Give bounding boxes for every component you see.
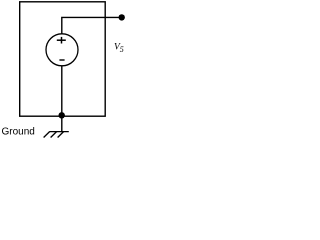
label Ground: [2, 127, 35, 138]
minus polarity mark: [59, 59, 64, 61]
wire loop rectangle: [20, 2, 106, 116]
voltage source V5 circle: [46, 34, 78, 66]
node V5 terminal dot: [119, 14, 125, 20]
wire from source bottom to ground: [61, 66, 63, 132]
svg-text:Ground: Ground: [2, 127, 35, 138]
svg-text:5: 5: [120, 45, 124, 54]
wire from source top to node V5: [62, 17, 122, 34]
junction dot on bottom wire: [59, 112, 65, 118]
plus polarity mark: [57, 37, 66, 44]
label V5: [114, 43, 124, 55]
ground symbol: [44, 132, 69, 138]
